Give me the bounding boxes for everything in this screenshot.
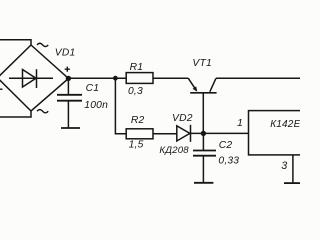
ground bar C2 [194,182,213,184]
svg-text:КД208: КД208 [159,145,189,156]
wire AC input top [0,40,31,45]
svg-text:0,3: 0,3 [128,86,143,97]
wire AC input bottom [0,111,31,117]
svg-text:VD1: VD1 [55,47,76,58]
resistor R1 [126,73,153,84]
svg-text:100n: 100n [84,100,108,111]
junction VT1 base C2 node [201,131,206,136]
capacitor C1 [57,79,82,129]
wire branch to R2 [115,78,126,134]
polarity minus [0,88,3,90]
transistor VT1 [188,78,216,133]
svg-text:К142ЕН: К142ЕН [270,119,300,130]
wire VD2 to regulator pin 1 [191,132,249,134]
wire pin 3 to ground [292,155,294,183]
wire R2 to VD2 [153,133,177,135]
junction R2 tap node [113,76,118,81]
polarity plus [65,67,70,72]
svg-text:3: 3 [281,160,287,172]
svg-text:1: 1 [237,117,243,129]
AC tilde top [37,43,48,46]
bridge rectifier VD1 diamond [0,45,69,111]
AC tilde bottom [37,110,48,113]
svg-text:C1: C1 [86,83,100,94]
svg-text:R1: R1 [130,62,144,73]
svg-text:R2: R2 [131,115,145,126]
resistor R2 [126,129,153,139]
ground bar C1 [61,127,80,129]
capacitor C2 [193,133,216,182]
junction bridge output node [66,76,71,81]
svg-text:0,33: 0,33 [218,155,239,166]
wire R1 to VT1 emitter [153,77,188,79]
svg-text:VT1: VT1 [192,58,211,69]
wire VT1 collector output rail [216,77,300,79]
svg-text:VD2: VD2 [172,113,193,124]
wire positive rail to R1 [68,77,126,79]
svg-text:1,5: 1,5 [129,140,144,151]
ground bar pin 3 [284,182,300,184]
bridge diode symbol [9,69,53,88]
IC U1 K142EN regulator box [249,111,303,155]
diode VD2 [177,125,191,142]
svg-text:C2: C2 [219,140,233,151]
